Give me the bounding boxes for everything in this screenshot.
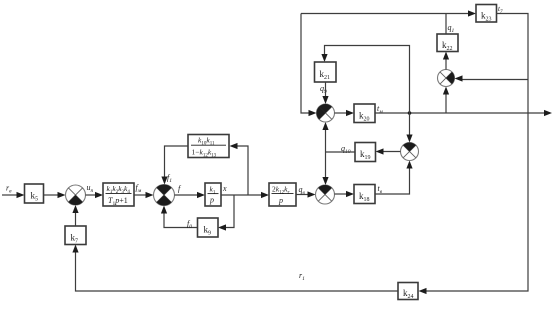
wire k5 to S1 — [44, 192, 66, 198]
wire top rail left down to S4 left — [301, 14, 317, 117]
label f — [178, 184, 182, 193]
block k20 — [354, 104, 375, 123]
wire S4 to k20 — [335, 110, 355, 116]
block B4 k10k11/(1-k12k13) — [188, 135, 229, 159]
wire B3 to S3 — [296, 191, 316, 197]
wire k23 down to k24 — [419, 14, 529, 295]
block k7 — [65, 226, 86, 245]
wire k19 to branch — [326, 151, 356, 153]
svg-text:p: p — [209, 196, 214, 205]
label f1 — [167, 173, 172, 184]
summing junction S2 — [154, 185, 175, 206]
wire k18 to S5 bottom — [375, 161, 413, 195]
wire k21 to S4 top — [322, 82, 328, 104]
block B2 ki/p — [205, 183, 221, 206]
label r1 — [299, 271, 305, 282]
wire t_m tap up to S6 bottom — [443, 87, 449, 114]
block B1 k1k2k3k4/(T1p+1) — [103, 183, 134, 207]
wire k9 to S2 bottom — [161, 206, 198, 228]
label q9 — [320, 84, 327, 95]
wire x-node down to k9 — [218, 195, 234, 231]
block k19 — [355, 143, 376, 162]
wire S1 to B1 — [86, 192, 104, 198]
node at 409/113 — [408, 111, 412, 115]
wire k24 to k7 — [72, 245, 398, 292]
summing junction S5 — [401, 143, 419, 161]
block k22 — [437, 34, 458, 52]
wire tap up to B4 input — [230, 143, 249, 195]
wire B4 to S2 top — [161, 146, 188, 185]
summing junction S1 — [66, 185, 86, 205]
wire k22 up to top rail — [445, 14, 447, 35]
wire x409 down to S5 top — [406, 113, 412, 143]
wire t_m output line — [375, 110, 552, 116]
label q10 — [341, 144, 351, 155]
svg-text:x: x — [222, 184, 227, 193]
wire B1 to S2 — [134, 192, 154, 198]
block B3 2k12kg/p — [269, 183, 296, 206]
wire S3 to k18 — [335, 191, 355, 197]
label q1 — [448, 23, 455, 34]
block k24 — [398, 283, 418, 301]
wire t_m up over to k21 — [321, 46, 409, 114]
summing junction S4 — [317, 104, 335, 122]
block k9 — [198, 218, 219, 237]
label t_m — [377, 104, 383, 115]
summing junction S3 — [316, 185, 335, 204]
label x — [222, 184, 227, 193]
label q_v — [299, 185, 306, 196]
wire branch down to S3 top — [322, 152, 328, 185]
input signal r_v — [2, 184, 25, 199]
wire branch up to S4 bottom — [322, 122, 328, 152]
label t_v — [378, 184, 383, 195]
label t7 — [498, 5, 503, 15]
block k21 — [315, 62, 337, 82]
label f0 — [187, 219, 192, 230]
block k23 — [476, 5, 497, 23]
label u_p — [87, 183, 94, 194]
block k5 — [25, 184, 44, 203]
wire S6 to k22 — [443, 52, 449, 70]
block k18 — [354, 185, 375, 204]
svg-text:p: p — [278, 196, 283, 205]
wire S2 to B2 — [175, 192, 206, 198]
wire feedback into S6 right — [455, 75, 529, 81]
wire x-node to B3 — [221, 192, 269, 198]
summing junction S6 — [438, 70, 455, 87]
wire top rail to k23 — [301, 10, 476, 16]
wire S5 to k19 — [376, 148, 401, 154]
wire k7 to S1 bottom — [72, 205, 78, 226]
label f_m — [136, 183, 142, 194]
